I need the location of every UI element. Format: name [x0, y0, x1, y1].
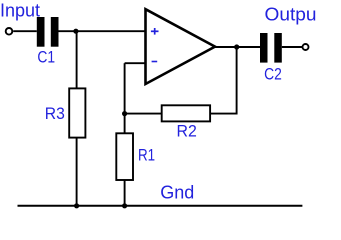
svg-text:R2: R2 — [177, 121, 197, 140]
op-amp U1 — [146, 9, 216, 84]
wire C1 to op-amp plus input — [59, 30, 146, 32]
label C2 — [264, 64, 282, 83]
svg-text:R3: R3 — [45, 104, 65, 123]
wire node B to R2 — [125, 113, 162, 115]
wire R2 to output node — [210, 113, 237, 115]
wire op-amp output to C2 — [214, 46, 260, 48]
op-amp minus pin mark — [152, 61, 158, 63]
capacitor C1 — [37, 17, 59, 47]
label C1 — [37, 48, 55, 67]
wire R1 to ground rail — [124, 180, 126, 206]
svg-text:Input: Input — [0, 0, 40, 20]
wire node B to R1 — [124, 114, 126, 134]
wire C2 to output terminal — [282, 46, 302, 48]
junction node B (R1 / R2 / inverting input) — [122, 111, 127, 116]
ground rail — [18, 205, 303, 207]
svg-text:R1: R1 — [138, 145, 155, 164]
node label Outpu — [265, 5, 317, 25]
wire feedback vertical up to output — [236, 47, 238, 115]
output terminal — [303, 44, 309, 50]
label R3 — [45, 104, 65, 123]
label Gnd — [160, 182, 194, 202]
wire node A down to R3 — [76, 31, 78, 89]
label R1 — [138, 145, 155, 164]
wire input terminal to C1 — [13, 30, 37, 32]
svg-text:Gnd: Gnd — [160, 182, 194, 202]
input terminal — [6, 28, 13, 35]
svg-text:C1: C1 — [37, 48, 55, 67]
junction ground / R3 — [74, 203, 79, 208]
op-amp plus pin mark — [151, 28, 159, 35]
resistor R3 — [69, 88, 85, 137]
capacitor C2 — [260, 33, 282, 63]
junction node C (output / feedback) — [234, 44, 239, 49]
junction ground / R1 — [122, 203, 127, 208]
node label Input — [0, 0, 40, 20]
wire inverting input — [125, 62, 146, 64]
svg-text:Outpu: Outpu — [265, 5, 317, 25]
resistor R2 — [162, 105, 210, 121]
resistor R1 — [116, 133, 133, 180]
svg-text:C2: C2 — [264, 64, 282, 83]
wire feedback node down from inverting input — [124, 63, 126, 114]
wire R3 to ground rail — [76, 138, 78, 206]
junction node A (input / R3) — [73, 29, 78, 34]
label R2 — [177, 121, 197, 140]
